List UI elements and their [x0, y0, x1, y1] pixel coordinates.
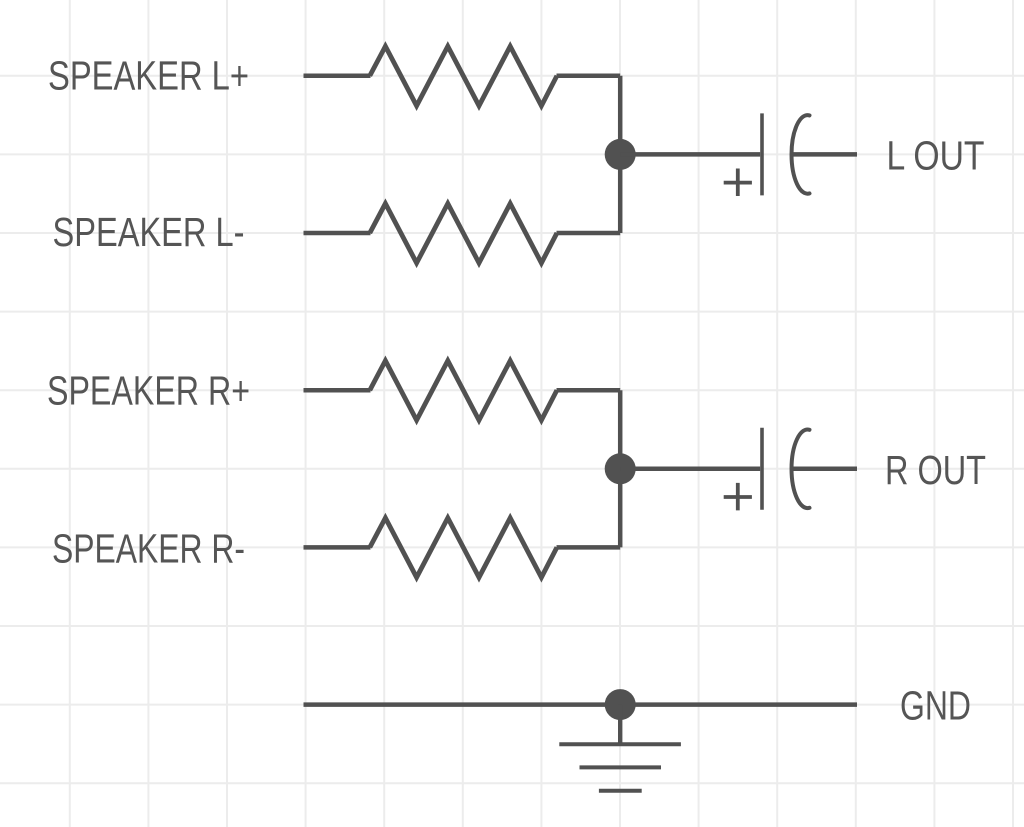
svg-text:GND: GND	[900, 683, 971, 729]
wire	[304, 545, 371, 550]
wire	[792, 467, 858, 472]
wire	[618, 76, 623, 233]
svg-text:SPEAKER R-: SPEAKER R-	[52, 526, 245, 572]
wire	[557, 388, 621, 393]
wire	[620, 467, 760, 472]
wire	[620, 152, 760, 157]
capacitor C1	[724, 113, 810, 196]
wire	[304, 388, 371, 393]
svg-text:SPEAKER L+: SPEAKER L+	[48, 53, 249, 99]
wire	[792, 152, 858, 157]
wire	[618, 390, 623, 547]
svg-text:R OUT: R OUT	[885, 447, 986, 493]
ground	[559, 705, 681, 791]
resistor R3	[370, 361, 557, 421]
wire	[304, 74, 371, 79]
resistor R1	[370, 46, 557, 106]
junction node GND	[605, 689, 636, 720]
wire	[304, 231, 371, 236]
resistor R4	[370, 518, 557, 578]
capacitor C2	[724, 428, 810, 511]
wire	[557, 74, 621, 79]
junction node R	[605, 453, 636, 484]
wire	[557, 231, 621, 236]
wire	[304, 702, 858, 707]
svg-text:SPEAKER L-: SPEAKER L-	[53, 209, 245, 255]
svg-text:SPEAKER R+: SPEAKER R+	[47, 368, 250, 414]
wire	[557, 545, 621, 550]
resistor R2	[370, 204, 557, 264]
svg-text:L OUT: L OUT	[887, 133, 985, 179]
junction node L	[605, 139, 636, 170]
